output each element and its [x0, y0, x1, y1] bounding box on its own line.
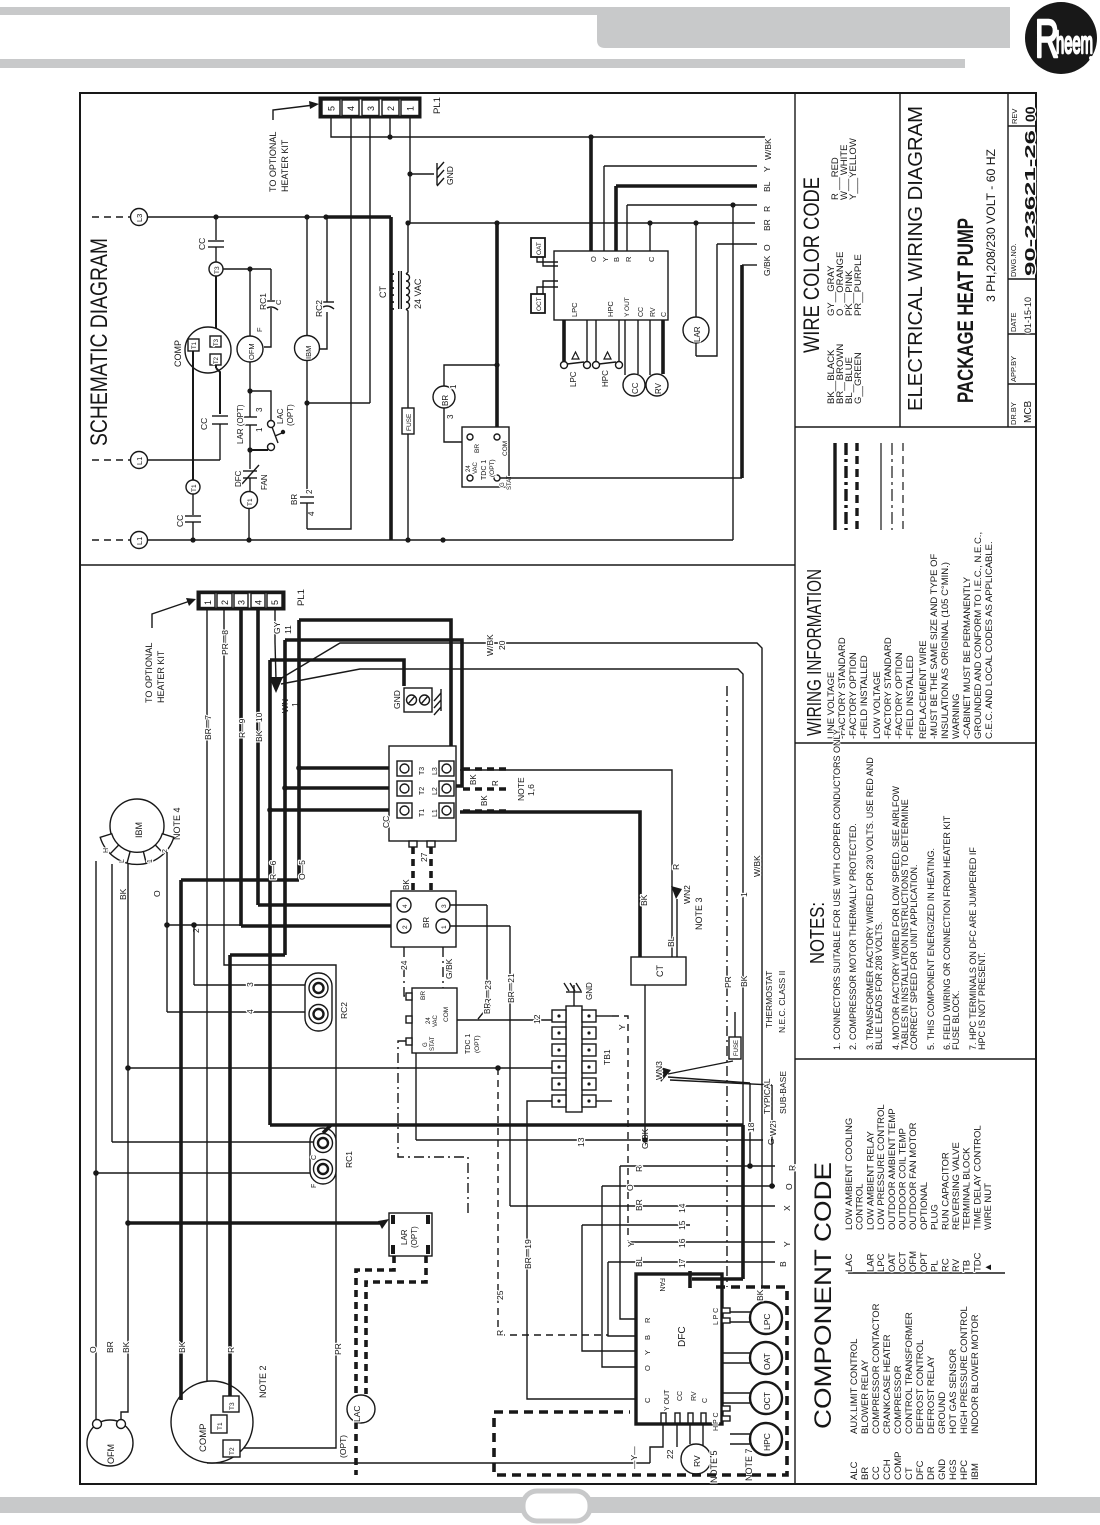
svg-text:OPTIONAL: OPTIONAL — [919, 1182, 930, 1230]
svg-text:OFM: OFM — [908, 1251, 919, 1272]
svg-text:L1: L1 — [135, 457, 144, 465]
dashed lead — [92, 459, 130, 461]
pressure switch circles LPC OAT OCT HPC — [730, 1311, 751, 1313]
svg-text:T3: T3 — [214, 338, 220, 346]
svg-text:N.E.C. CLASS II: N.E.C. CLASS II — [777, 971, 787, 1033]
svg-text:LAR (OPT): LAR (OPT) — [236, 404, 245, 444]
wire BK from CT to CC L1 — [460, 812, 640, 957]
wire BK to COMP T1 — [179, 880, 183, 1400]
svg-text:RC: RC — [940, 1258, 951, 1272]
wire 12 row TDC COM to TB1 — [457, 1019, 552, 1021]
svg-text:GND: GND — [445, 166, 455, 185]
svg-text:R: R — [495, 1330, 505, 1336]
wire GY-11 to wire nut — [274, 609, 276, 642]
svg-text:TERMINAL BLOCK: TERMINAL BLOCK — [962, 1147, 973, 1230]
svg-text:LAC: LAC — [352, 1405, 362, 1422]
wire W/BK-20 — [280, 643, 762, 1287]
svg-text:LOW VOLTAGE: LOW VOLTAGE — [872, 671, 883, 739]
svg-text:B: B — [778, 1261, 788, 1267]
svg-text:LAR: LAR — [400, 1229, 409, 1245]
svg-text:2: 2 — [386, 106, 396, 111]
svg-text:IBM: IBM — [304, 346, 313, 359]
svg-text:BR: BR — [420, 991, 427, 1000]
divider title block — [899, 93, 901, 427]
line sample field installed thick dashed — [855, 443, 858, 530]
svg-text:W/BK: W/BK — [485, 634, 495, 656]
svg-text:OUTDOOR AMBIENT TEMP: OUTDOOR AMBIENT TEMP — [887, 1108, 898, 1230]
svg-text:3: 3 — [446, 414, 455, 419]
svg-text:LAR: LAR — [693, 326, 702, 342]
svg-text:TO OPTIONAL: TO OPTIONAL — [268, 132, 278, 192]
run capacitor RC1 connection diagram — [310, 1128, 336, 1184]
wire 26 — [771, 1085, 773, 1186]
svg-text:REVERSING VALVE: REVERSING VALVE — [951, 1142, 962, 1230]
svg-text:T2: T2 — [419, 787, 426, 795]
svg-text:TYPICAL: TYPICAL — [762, 1078, 772, 1114]
svg-text:T2: T2 — [214, 356, 220, 364]
svg-text:INDOOR BLOWER MOTOR: INDOOR BLOWER MOTOR — [970, 1314, 981, 1434]
svg-text:OPT: OPT — [919, 1252, 930, 1272]
svg-text:CORRECT SPEED FOR UNIT APPLICA: CORRECT SPEED FOR UNIT APPLICATION. — [909, 864, 919, 1050]
svg-text:CC: CC — [175, 515, 185, 527]
svg-text:DFC: DFC — [677, 1326, 688, 1347]
svg-text:3: 3 — [366, 106, 376, 111]
supply terminal L3 — [131, 209, 148, 226]
svg-text:T3: T3 — [214, 266, 221, 274]
svg-text:LAC: LAC — [844, 1253, 855, 1272]
wire 4 to RC2 — [167, 1011, 306, 1013]
svg-text:LOW AMBIENT RELAY: LOW AMBIENT RELAY — [865, 1130, 876, 1230]
svg-text:OCT: OCT — [536, 297, 543, 311]
svg-text:R: R — [787, 1165, 797, 1171]
contact BR 4 2 — [300, 496, 314, 498]
svg-text:1: 1 — [449, 384, 458, 389]
footer pill — [523, 1491, 590, 1521]
svg-text:C: C — [702, 1398, 709, 1403]
svg-text:R—9: R—9 — [237, 718, 247, 738]
svg-text:-FACTORY STANDARD: -FACTORY STANDARD — [883, 637, 894, 739]
capacitor RC2 — [319, 312, 327, 349]
svg-text:L1: L1 — [135, 537, 144, 545]
wire IBM tap 2 down — [166, 852, 168, 1012]
svg-text:25: 25 — [495, 1290, 505, 1300]
svg-text:SCHEMATIC DIAGRAM: SCHEMATIC DIAGRAM — [86, 238, 113, 446]
svg-text:LPC: LPC — [762, 1313, 772, 1330]
svg-text:OFM: OFM — [106, 1444, 116, 1464]
svg-text:22: 22 — [665, 1449, 675, 1459]
svg-text:C: C — [274, 299, 283, 305]
wire COMP T1 branch — [192, 351, 194, 480]
wire PR dash-dot right vertical — [726, 686, 728, 1287]
wire BR-19 — [527, 1101, 636, 1399]
svg-text:DWG.NO.: DWG.NO. — [1009, 243, 1018, 277]
svg-text:12: 12 — [532, 1014, 542, 1024]
svg-text:CC: CC — [197, 238, 207, 250]
contactor coil CC schematic — [624, 320, 626, 375]
svg-text:STAT: STAT — [430, 1036, 436, 1051]
svg-text:L3: L3 — [432, 767, 439, 775]
wire BL B row — [608, 1261, 775, 1263]
svg-text:CCH: CCH — [882, 1459, 893, 1480]
component code column divider — [848, 1272, 1005, 1274]
svg-text:LOW PRESSURE CONTROL: LOW PRESSURE CONTROL — [876, 1104, 887, 1230]
svg-text:Y: Y — [782, 1241, 792, 1247]
svg-text:BL: BL — [762, 181, 772, 192]
L1 bottom rail — [147, 539, 733, 541]
svg-text:INSULATION AS ORIGINAL (105 C°: INSULATION AS ORIGINAL (105 C°MIN.) — [940, 562, 951, 739]
svg-text:HEATER KIT: HEATER KIT — [156, 650, 166, 703]
svg-text:TB1: TB1 — [602, 1049, 612, 1065]
contact CC on T1 branch — [192, 494, 194, 515]
svg-text:WN3: WN3 — [654, 1061, 664, 1080]
svg-text:2: 2 — [305, 489, 314, 494]
terminal T1 — [186, 480, 200, 494]
wire BR-23 — [450, 904, 487, 906]
wire Y OUT 22 — [650, 1423, 663, 1463]
wire CT to 13 row — [644, 985, 646, 1140]
svg-text:BK: BK — [118, 888, 128, 900]
svg-text:PR: PR — [333, 1343, 343, 1355]
wire 3 to RC2 — [194, 984, 306, 986]
connector PL1 schematic — [320, 98, 420, 117]
wire RC1 C row — [112, 1141, 313, 1143]
svg-text:RV: RV — [951, 1258, 962, 1272]
svg-text:HPC: HPC — [959, 1460, 970, 1480]
wire PL1 pin1 down — [409, 117, 411, 223]
svg-text:-FIELD INSTALLED: -FIELD INSTALLED — [859, 655, 870, 739]
wire O row — [602, 1185, 775, 1187]
wire nut WN1 — [269, 677, 283, 693]
wire Y dashed from TB1 — [596, 1015, 612, 1017]
svg-text:3: 3 — [237, 600, 247, 605]
svg-text:HPC: HPC — [606, 301, 615, 317]
svg-text:NOTE 3: NOTE 3 — [694, 897, 704, 930]
DFC left wires to rows — [620, 1166, 636, 1319]
svg-text:HOT GAS SENSOR: HOT GAS SENSOR — [948, 1349, 959, 1434]
svg-text:HPC: HPC — [762, 1433, 772, 1451]
svg-text:T1: T1 — [191, 484, 198, 492]
svg-text:T2: T2 — [229, 1447, 236, 1455]
svg-text:—Y—: —Y— — [629, 1446, 639, 1469]
dash-dot option run to LAR — [398, 1041, 468, 1213]
svg-text:17: 17 — [677, 1258, 687, 1268]
svg-text:CONTROL: CONTROL — [855, 1184, 866, 1230]
svg-text:DEFROST CONTROL: DEFROST CONTROL — [915, 1340, 926, 1434]
svg-text:COMP: COMP — [198, 1424, 209, 1453]
wire BR from IBM to RC1 C — [111, 864, 113, 1142]
ground block GND — [404, 688, 432, 712]
svg-text:RV: RV — [691, 1391, 698, 1401]
svg-text:L: L — [119, 859, 126, 863]
ground symbol — [440, 689, 442, 711]
svg-text:FAN: FAN — [658, 1278, 665, 1292]
switch HPC — [595, 320, 597, 361]
svg-text:-FACTORY OPTION: -FACTORY OPTION — [894, 652, 905, 739]
compressor COMP — [185, 327, 231, 373]
svg-text:RV: RV — [692, 1455, 702, 1467]
svg-text:VAC: VAC — [433, 1014, 439, 1027]
svg-text:O: O — [88, 1346, 98, 1353]
svg-text:RUN CAPACITOR: RUN CAPACITOR — [940, 1152, 951, 1230]
line sample factory standard thick — [833, 443, 836, 530]
wire G STAT / 13 row — [415, 1053, 417, 1140]
terminal block TB1 — [566, 1006, 582, 1112]
svg-text:IBM: IBM — [134, 822, 144, 838]
svg-text:OUTDOOR FAN MOTOR: OUTDOOR FAN MOTOR — [908, 1122, 919, 1230]
svg-text:CT: CT — [904, 1467, 915, 1480]
svg-text:SUB-BASE: SUB-BASE — [778, 1071, 788, 1114]
wire BL row — [616, 184, 757, 188]
switch LAC (OPT) — [250, 391, 271, 420]
svg-text:OFM: OFM — [247, 343, 256, 360]
low ambient relay LAR OPT box — [389, 1213, 432, 1256]
supply terminal L1 mid — [131, 452, 148, 469]
svg-text:LPC: LPC — [570, 302, 579, 317]
motor IBM branch — [306, 217, 308, 336]
svg-text:90-23621-26: 90-23621-26 — [1022, 130, 1039, 276]
wire BR-21 — [450, 925, 510, 927]
svg-text:2: 2 — [220, 600, 230, 605]
svg-text:20: 20 — [497, 640, 507, 650]
svg-text:01-15-10: 01-15-10 — [1023, 297, 1033, 333]
svg-text:-FIELD INSTALLED: -FIELD INSTALLED — [905, 655, 916, 739]
three phase feed wires thick — [297, 620, 301, 880]
IBM speed tap wedges — [100, 834, 174, 865]
svg-text:4: 4 — [346, 106, 356, 111]
svg-text:R: R — [624, 256, 633, 262]
wire IBM to PL1 pin4 — [307, 117, 351, 529]
svg-text:RV: RV — [654, 382, 663, 394]
thermostat dashed box — [494, 1287, 787, 1475]
svg-text:RC2: RC2 — [339, 1002, 349, 1019]
svg-text:BL: BL — [666, 936, 676, 947]
svg-text:1: 1 — [147, 859, 154, 863]
svg-text:R: R — [634, 1166, 644, 1172]
svg-text:1: 1 — [203, 600, 213, 605]
svg-text:2: 2 — [402, 925, 409, 929]
svg-text:BR: BR — [762, 219, 772, 231]
wire 2 from IBM — [167, 924, 241, 926]
svg-text:CONTROL TRANSFORMER: CONTROL TRANSFORMER — [904, 1312, 915, 1434]
svg-text:R: R — [491, 780, 500, 786]
svg-text:GND: GND — [937, 1459, 948, 1480]
svg-text:G: G — [423, 1042, 429, 1047]
svg-text:COMP: COMP — [173, 340, 183, 367]
svg-text:R: R — [762, 206, 772, 212]
svg-text:BR: BR — [422, 917, 431, 928]
svg-text:COM: COM — [443, 1007, 450, 1022]
svg-text:O: O — [625, 1184, 635, 1191]
fan feed thick run — [270, 1123, 743, 1127]
svg-text:O: O — [589, 256, 598, 262]
svg-text:L3: L3 — [135, 214, 144, 222]
wire O from IBM to OFM — [95, 861, 97, 1421]
reversing valve RV connection diagram — [689, 1423, 691, 1444]
control board DFC schematic — [554, 251, 668, 320]
fuse FUSE schematic — [402, 408, 414, 434]
svg-text:CT: CT — [655, 965, 665, 977]
Rheem logo wordmark — [1035, 9, 1093, 69]
svg-text:BK: BK — [177, 1341, 187, 1353]
svg-text:OCT: OCT — [898, 1252, 909, 1272]
svg-text:Y: Y — [643, 1350, 652, 1355]
wire thick BK to LAR — [128, 1221, 385, 1225]
svg-text:BK: BK — [480, 795, 489, 806]
svg-text:DR.BY: DR.BY — [1009, 402, 1018, 425]
svg-text:O: O — [762, 244, 772, 251]
svg-text:O: O — [152, 890, 162, 897]
svg-text:WARNING: WARNING — [951, 693, 962, 739]
dash-dot wire G/BK — [443, 947, 455, 1013]
svg-text:BK: BK — [402, 879, 411, 890]
svg-text:LAR: LAR — [865, 1253, 876, 1272]
svg-text:Y: Y — [601, 257, 610, 262]
svg-text:RC2: RC2 — [314, 300, 324, 317]
svg-text:T1: T1 — [192, 341, 198, 349]
contact CC on T2 branch — [212, 415, 228, 417]
svg-text:CT: CT — [378, 286, 388, 298]
svg-text:(OPT): (OPT) — [338, 1435, 348, 1458]
wire R row — [627, 204, 757, 206]
wire R from CT to CC L3 — [460, 770, 672, 957]
svg-text:F: F — [255, 327, 264, 332]
svg-text:T3: T3 — [419, 767, 426, 775]
svg-text:G__GREEN: G__GREEN — [853, 352, 864, 404]
svg-text:ALC: ALC — [849, 1461, 860, 1480]
svg-text:C: C — [661, 312, 668, 317]
wire O row to LAR — [717, 243, 757, 245]
sensor OCT box — [531, 294, 545, 313]
svg-text:4: 4 — [307, 511, 316, 516]
svg-text:R—6: R—6 — [268, 860, 278, 880]
svg-text:FUSE BLOCK.: FUSE BLOCK. — [951, 990, 961, 1050]
svg-text:BR—7: BR—7 — [203, 715, 213, 740]
divider wire color / wiring info — [795, 426, 1036, 428]
svg-text:CC: CC — [638, 307, 645, 317]
svg-text:11: 11 — [283, 625, 293, 634]
contactor CC connection diagram — [389, 746, 456, 841]
wire BR-7 / Y long run — [206, 609, 208, 1463]
svg-text:BR: BR — [290, 494, 299, 505]
line sample factory option thick dash-dot — [844, 443, 847, 530]
svg-text:L P C: L P C — [713, 1308, 720, 1325]
svg-text:DFC: DFC — [234, 470, 243, 487]
dashed lead — [92, 216, 130, 218]
svg-text:OAT: OAT — [762, 1353, 772, 1370]
svg-text:CC: CC — [677, 1391, 684, 1401]
svg-text:HPC IS NOT PRESENT.: HPC IS NOT PRESENT. — [977, 952, 987, 1050]
svg-text:HPC: HPC — [601, 370, 610, 387]
wire BK-10 thick to BR block — [256, 609, 260, 905]
svg-text:▲: ▲ — [983, 1263, 994, 1272]
svg-text:THERMOSTAT: THERMOSTAT — [764, 971, 774, 1028]
svg-text:5: 5 — [270, 600, 280, 605]
svg-text:(OPT): (OPT) — [286, 404, 295, 426]
svg-text:WIRING INFORMATION: WIRING INFORMATION — [804, 569, 826, 736]
svg-text:NOTE 5: NOTE 5 — [709, 1450, 719, 1483]
svg-text:HIGH PRESSURE CONTROL: HIGH PRESSURE CONTROL — [959, 1306, 970, 1434]
svg-text:24: 24 — [426, 1017, 432, 1024]
svg-text:(OPT): (OPT) — [489, 459, 496, 477]
svg-text:HEATER KIT: HEATER KIT — [280, 139, 290, 192]
divider notes / component code — [795, 1058, 1036, 1060]
svg-text:BK: BK — [739, 975, 749, 987]
svg-text:C: C — [311, 1155, 318, 1160]
sensor OAT box — [531, 238, 545, 257]
compressor COMP connection diagram — [171, 1381, 253, 1463]
line sample lv factory standard thin — [880, 443, 882, 530]
svg-text:1,6: 1,6 — [526, 784, 536, 796]
footer gray bar — [0, 1497, 1100, 1513]
svg-text:TDC: TDC — [972, 1252, 983, 1272]
svg-text:Y OUT: Y OUT — [664, 1389, 671, 1411]
svg-text:DFC: DFC — [915, 1460, 926, 1480]
svg-text:AUX.LIMIT CONTROL: AUX.LIMIT CONTROL — [849, 1339, 860, 1434]
wire 18 — [749, 1083, 751, 1166]
svg-text:OCT: OCT — [762, 1392, 772, 1410]
svg-text:5: 5 — [327, 106, 337, 111]
wire PR-8 to COMP T2 — [224, 609, 336, 1448]
svg-text:4: 4 — [402, 904, 409, 908]
wire C terminal feed — [649, 223, 651, 251]
svg-text:PACKAGE HEAT PUMP: PACKAGE HEAT PUMP — [953, 218, 978, 403]
timer TDC 1 (OPT) connection diagram — [412, 988, 457, 1053]
svg-text:13: 13 — [576, 1137, 586, 1147]
wire BR row — [410, 222, 755, 224]
contact CC on T3 branch — [215, 217, 217, 240]
svg-text:H P C: H P C — [713, 1412, 720, 1431]
svg-text:3 PH,208/230 VOLT - 60 HZ: 3 PH,208/230 VOLT - 60 HZ — [986, 149, 998, 302]
svg-text:-FACTORY OPTION: -FACTORY OPTION — [848, 652, 859, 739]
wire W/BK row — [331, 117, 765, 137]
svg-text:2. COMPRESSOR MOTOR THERMALLY: 2. COMPRESSOR MOTOR THERMALLY PROTECTED. — [848, 823, 858, 1050]
svg-text:BK: BK — [121, 1341, 131, 1353]
svg-text:W/BK: W/BK — [763, 138, 773, 160]
svg-text:W/BK: W/BK — [752, 855, 762, 877]
header gray thin bar lower — [0, 59, 965, 68]
wire T3 to OFM row — [223, 268, 271, 270]
reversing valve RV schematic — [649, 320, 651, 375]
svg-text:TB: TB — [962, 1260, 973, 1272]
svg-text:T3: T3 — [229, 1402, 236, 1410]
wire R-9 thick to BR block — [239, 609, 243, 926]
svg-text:X: X — [782, 1205, 792, 1211]
dashed lead — [92, 539, 130, 541]
svg-text:3: 3 — [441, 904, 448, 908]
dashed wire R-25 — [497, 1068, 499, 1335]
svg-text:5. THIS COMPONENT ENERGIZED IN: 5. THIS COMPONENT ENERGIZED IN HEATING. — [926, 848, 936, 1050]
svg-text:ELECTRICAL WIRING DIAGRAM: ELECTRICAL WIRING DIAGRAM — [905, 106, 927, 411]
svg-text:H: H — [103, 848, 110, 853]
svg-text:NOTE 2: NOTE 2 — [258, 1365, 268, 1398]
svg-text:R: R — [226, 1347, 236, 1353]
svg-text:CC: CC — [381, 816, 391, 828]
svg-text:BR: BR — [474, 444, 481, 453]
wire 15 row — [582, 1224, 690, 1226]
timer TDC 1 (OPT) schematic — [462, 427, 509, 487]
line sample lv factory option thin dash-dot — [891, 443, 893, 530]
svg-text:00: 00 — [1022, 106, 1038, 122]
svg-text:BR: BR — [634, 1199, 644, 1211]
wire O terminal feed — [589, 137, 593, 251]
svg-text:BLUE LEADS FOR 208 VOLTS.: BLUE LEADS FOR 208 VOLTS. — [874, 922, 884, 1050]
svg-text:G/BK: G/BK — [444, 958, 454, 979]
svg-text:OAT: OAT — [887, 1253, 898, 1272]
wire R row — [620, 1165, 775, 1167]
ground at TB1 — [573, 992, 575, 1006]
svg-text:COMPONENT CODE: COMPONENT CODE — [810, 1162, 837, 1429]
wire OFM down — [249, 362, 251, 417]
